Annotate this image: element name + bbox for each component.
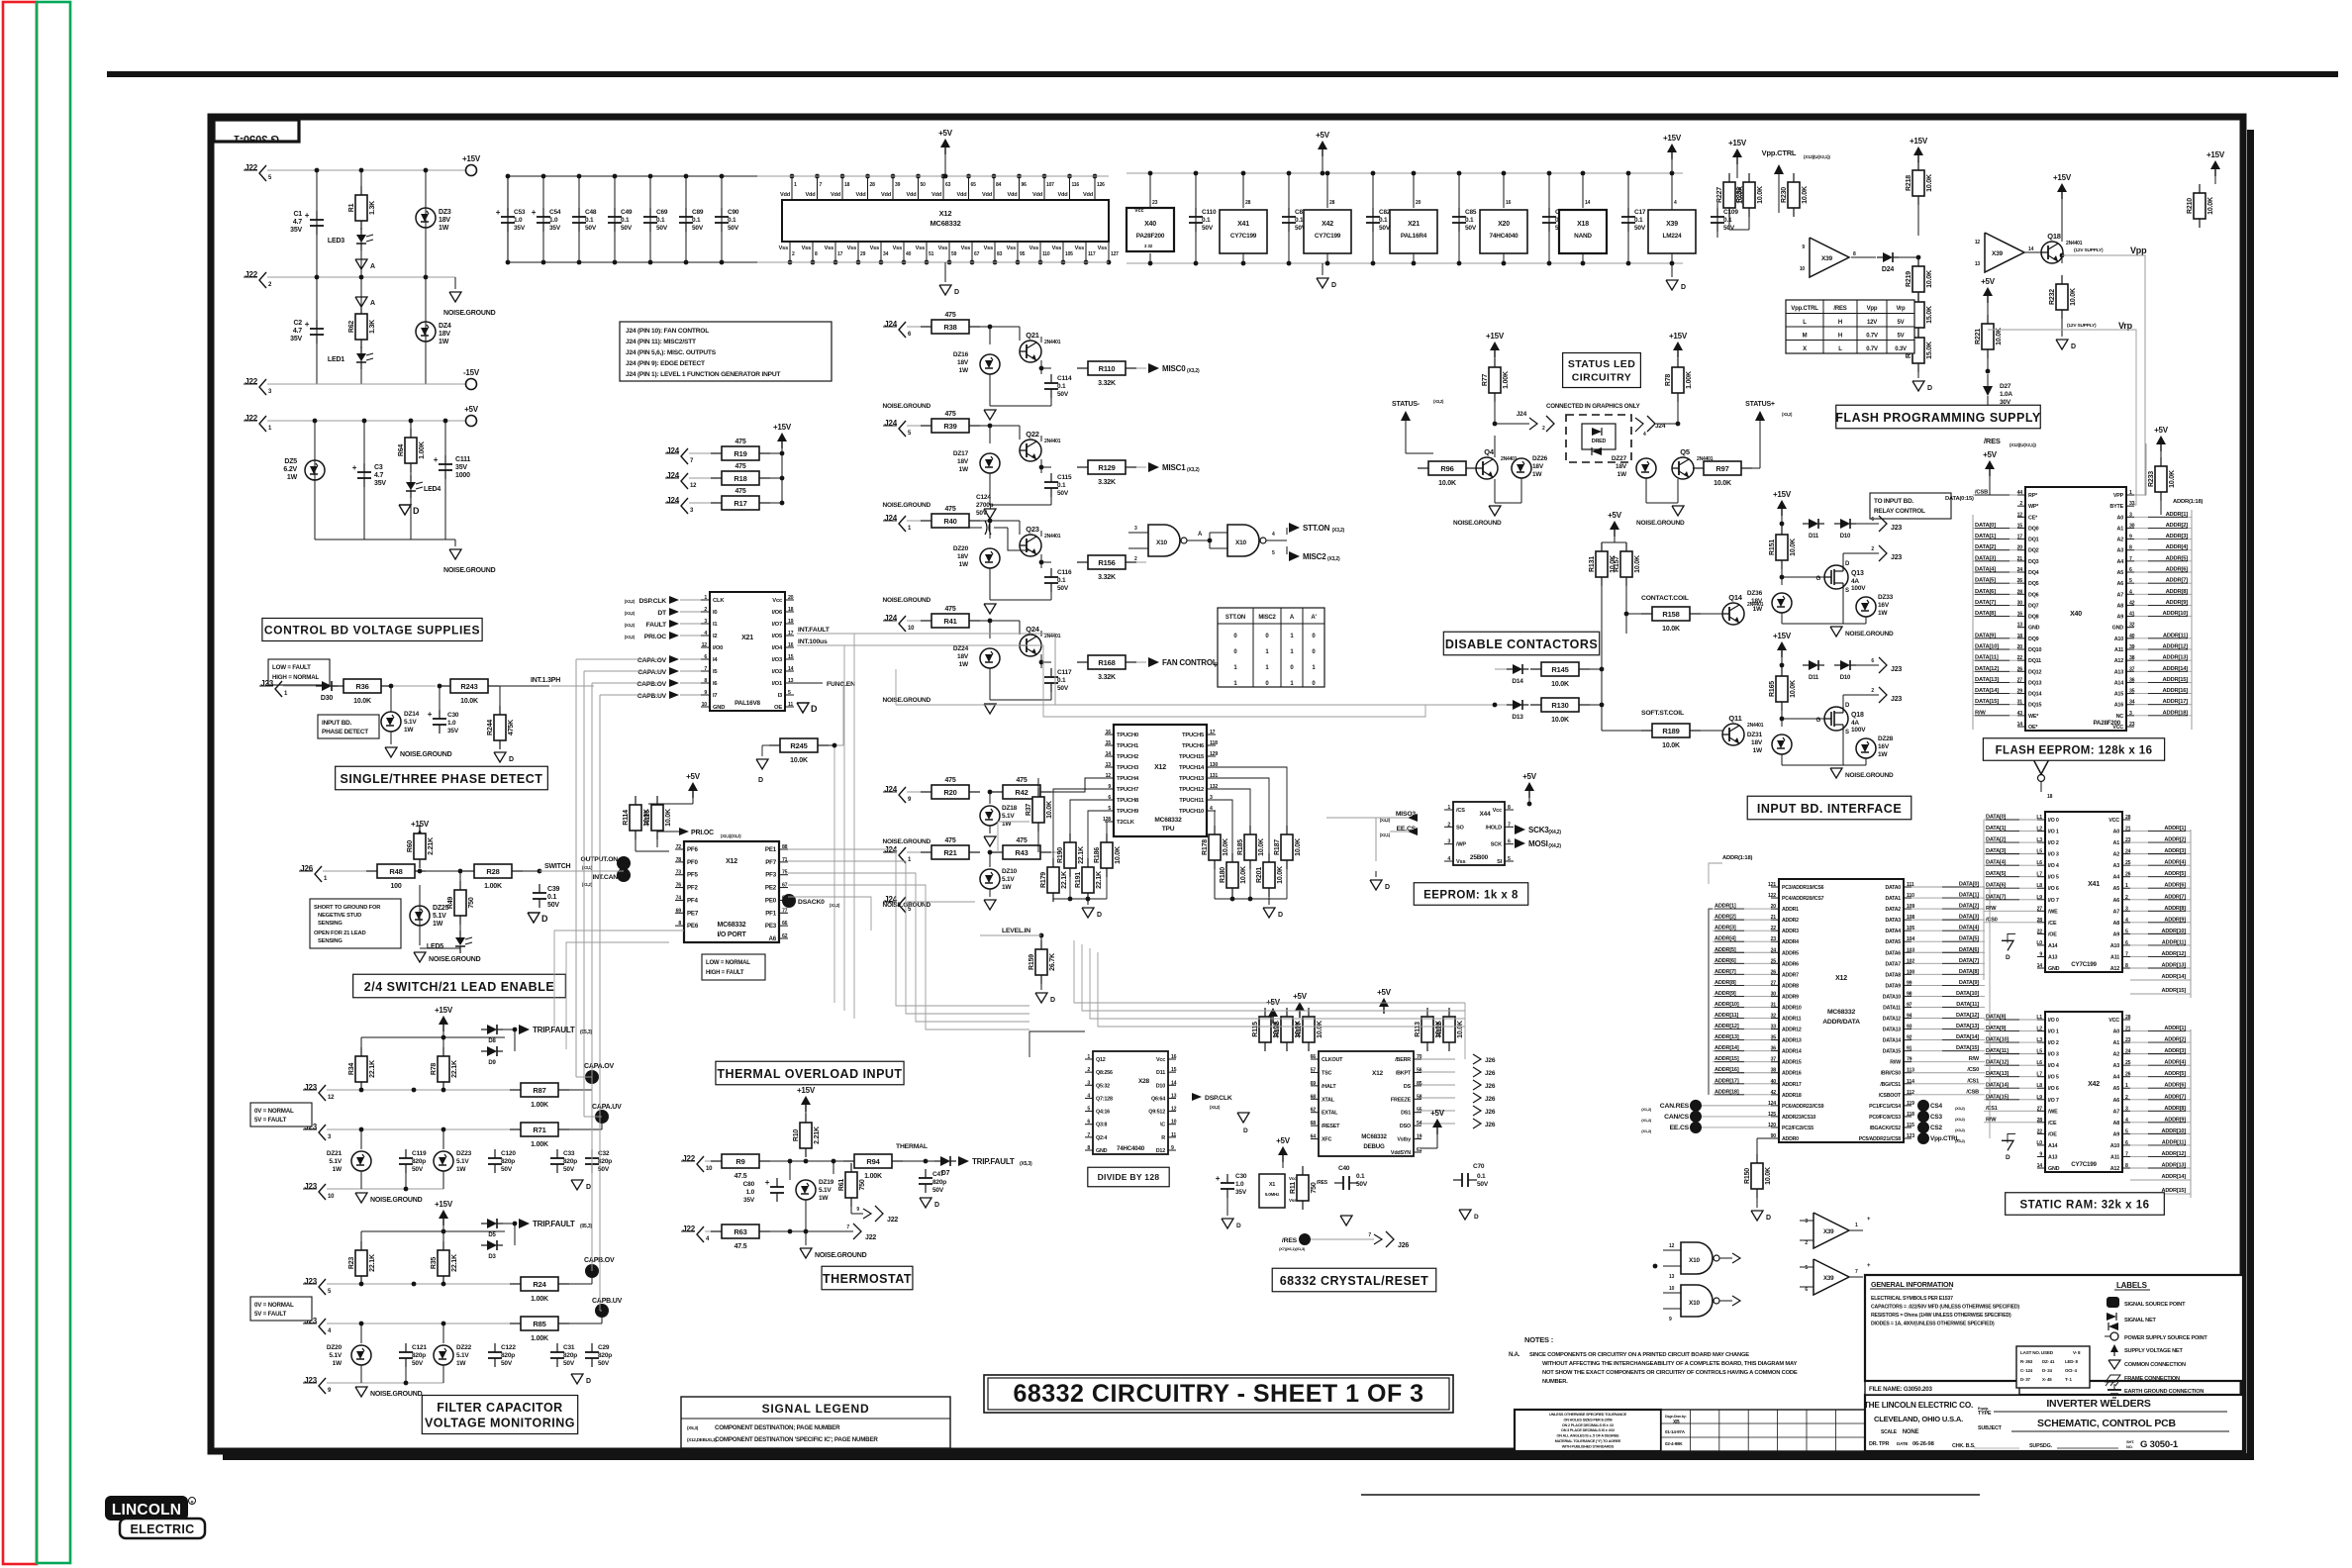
- svg-text:1W: 1W: [404, 727, 414, 734]
- svg-text:A11: A11: [2114, 647, 2123, 653]
- svg-text:R24: R24: [533, 1280, 546, 1289]
- svg-text:1W: 1W: [1532, 471, 1542, 478]
- svg-text:7: 7: [2125, 1151, 2128, 1157]
- svg-text:DATA9: DATA9: [1885, 983, 1901, 989]
- svg-text:X10: X10: [1689, 1257, 1701, 1264]
- svg-text:/BERR: /BERR: [1395, 1057, 1411, 1063]
- svg-text:NOISE.GROUND: NOISE.GROUND: [429, 956, 481, 963]
- svg-text:2: 2: [2019, 501, 2022, 507]
- svg-text:10.0K: 10.0K: [1295, 838, 1302, 856]
- svg-text:Q22: Q22: [1026, 430, 1039, 439]
- svg-text:SINCE COMPONENTS OR CIRCUITRY: SINCE COMPONENTS OR CIRCUITRY ON A PRINT…: [1529, 1352, 1749, 1358]
- svg-text:ADDR23//CS10: ADDR23//CS10: [1782, 1115, 1816, 1121]
- svg-text:+: +: [305, 211, 310, 220]
- svg-text:VddSYN: VddSYN: [1391, 1150, 1411, 1156]
- svg-text:3 32: 3 32: [1144, 244, 1153, 248]
- svg-text:MISC1: MISC1: [1162, 463, 1186, 472]
- svg-text:R60: R60: [407, 840, 414, 853]
- svg-text:1.00K: 1.00K: [1503, 371, 1510, 389]
- svg-text:35V: 35V: [514, 225, 526, 232]
- svg-text:5.1V: 5.1V: [329, 1158, 342, 1165]
- svg-text:R19: R19: [734, 449, 746, 458]
- svg-text:A8: A8: [2117, 603, 2124, 609]
- svg-text:10.0K: 10.0K: [1757, 186, 1764, 204]
- svg-text:RESISTORS = Ohms (1/4W UNLESS: RESISTORS = Ohms (1/4W UNLESS OTHERWISE …: [1871, 1313, 2011, 1319]
- svg-text:FAN CONTROL: FAN CONTROL: [1162, 658, 1218, 667]
- svg-text:X42: X42: [2088, 1081, 2100, 1088]
- svg-text:PA28F200: PA28F200: [1136, 233, 1165, 240]
- svg-text:Vpp: Vpp: [2130, 245, 2147, 255]
- svg-text:TPUCH6: TPUCH6: [1182, 743, 1205, 749]
- svg-text:117: 117: [1088, 251, 1096, 257]
- svg-text:27: 27: [2017, 677, 2023, 683]
- svg-text:I/O 7: I/O 7: [2048, 898, 2059, 904]
- svg-text:50V: 50V: [976, 510, 988, 517]
- svg-text:DIVIDE BY 128: DIVIDE BY 128: [1098, 1172, 1160, 1182]
- svg-text:9: 9: [704, 690, 707, 696]
- svg-text:Vss: Vss: [1075, 245, 1084, 251]
- svg-text:30: 30: [2129, 523, 2135, 529]
- svg-text:65: 65: [971, 182, 977, 188]
- svg-text:475: 475: [1016, 837, 1027, 844]
- svg-text:R244: R244: [487, 720, 494, 735]
- svg-text:8: 8: [1087, 1145, 1090, 1151]
- svg-text:ADDR10: ADDR10: [1782, 1005, 1802, 1011]
- svg-text:I/O 3: I/O 3: [2048, 852, 2059, 858]
- svg-text:R78: R78: [431, 1063, 438, 1076]
- svg-text:35V: 35V: [743, 1197, 755, 1204]
- svg-text:J24 (PIN 11): MISC2/STT: J24 (PIN 11): MISC2/STT: [626, 339, 696, 345]
- svg-text:2: 2: [792, 251, 795, 257]
- svg-text:(X3,2): (X3,2): [625, 635, 636, 639]
- svg-text:L: L: [1838, 346, 1842, 352]
- svg-text:13: 13: [1106, 762, 1112, 768]
- svg-text:I/O 4: I/O 4: [2048, 1063, 2059, 1069]
- svg-text:R/W: R/W: [1986, 1117, 1997, 1123]
- svg-text:C120: C120: [501, 1150, 516, 1157]
- svg-text:R243: R243: [460, 682, 477, 691]
- svg-text:18V: 18V: [957, 553, 969, 560]
- svg-text:I/O4: I/O4: [772, 645, 783, 651]
- svg-text:100V: 100V: [1851, 585, 1866, 592]
- svg-text:42: 42: [1771, 1090, 1777, 1096]
- svg-text:10: 10: [702, 702, 708, 708]
- svg-text:19: 19: [788, 619, 794, 625]
- svg-text:A1: A1: [2113, 840, 2120, 846]
- svg-text:+15V: +15V: [1773, 490, 1792, 499]
- svg-text:T- 1: T- 1: [2065, 1377, 2073, 1382]
- svg-text:C89: C89: [692, 209, 704, 216]
- svg-text:50V: 50V: [1379, 225, 1391, 232]
- svg-text:L2: L2: [2036, 827, 2042, 833]
- svg-text:R180: R180: [1220, 867, 1226, 883]
- svg-text:DRED: DRED: [1592, 439, 1607, 444]
- svg-text:ADDR12: ADDR12: [1782, 1028, 1802, 1033]
- svg-text:J23: J23: [304, 1182, 317, 1191]
- svg-text:X42: X42: [1322, 221, 1333, 228]
- svg-text:8: 8: [2125, 1163, 2128, 1169]
- svg-text:D10: D10: [1840, 534, 1851, 539]
- svg-text:820p: 820p: [563, 1158, 577, 1165]
- svg-text:A1: A1: [2113, 1040, 2120, 1046]
- svg-text:11: 11: [1171, 1132, 1176, 1138]
- svg-text:A': A': [1311, 615, 1317, 621]
- svg-text:/CSB: /CSB: [1966, 1089, 1979, 1095]
- svg-text:DIODES = 1A, 400V(UNLESS OTHE: DIODES = 1A, 400V(UNLESS OTHERWISE SPECI…: [1871, 1322, 1995, 1327]
- svg-text:4.7: 4.7: [374, 472, 383, 479]
- svg-text:H: H: [1838, 334, 1842, 340]
- svg-text:50V: 50V: [1477, 1181, 1489, 1188]
- svg-text:0V = NORMAL: 0V = NORMAL: [254, 1302, 294, 1309]
- svg-text:3.32K: 3.32K: [1098, 380, 1116, 387]
- svg-text:HIGH = NORMAL: HIGH = NORMAL: [272, 674, 319, 681]
- svg-text:A14: A14: [2114, 680, 2123, 686]
- svg-text:X10: X10: [1689, 1300, 1701, 1307]
- svg-text:/BG//CS1: /BG//CS1: [1880, 1082, 1901, 1088]
- svg-text:34: 34: [2129, 700, 2135, 706]
- svg-text:SIGNAL LEGEND: SIGNAL LEGEND: [762, 1402, 870, 1416]
- svg-text:X- 45: X- 45: [2042, 1377, 2052, 1382]
- svg-text:25: 25: [1771, 958, 1777, 964]
- svg-text:126: 126: [1097, 182, 1105, 188]
- svg-text:DATA13: DATA13: [1883, 1028, 1902, 1033]
- svg-text:CY7C199: CY7C199: [1315, 233, 1341, 240]
- svg-text:R210: R210: [2187, 198, 2194, 214]
- svg-text:DQ6: DQ6: [2028, 592, 2039, 598]
- svg-text:5: 5: [2125, 1128, 2128, 1134]
- svg-text:(X1,2): (X1,2): [582, 882, 593, 887]
- svg-text:38: 38: [2129, 655, 2135, 661]
- svg-text:R9: R9: [735, 1157, 744, 1166]
- svg-text:DEBUG: DEBUG: [1363, 1143, 1385, 1150]
- svg-text:PF1: PF1: [765, 910, 777, 917]
- svg-text:59: 59: [951, 251, 957, 257]
- svg-text:76: 76: [676, 883, 682, 889]
- svg-text:(X3,2): (X3,2): [1782, 412, 1793, 417]
- svg-text:22: 22: [1771, 926, 1777, 931]
- svg-text:TRIP.FAULT: TRIP.FAULT: [533, 1220, 575, 1228]
- svg-text:GND: GND: [2048, 1166, 2060, 1172]
- svg-text:L3: L3: [2036, 837, 2042, 843]
- svg-text:R185: R185: [1237, 839, 1244, 855]
- svg-text:DATA6: DATA6: [1885, 950, 1901, 956]
- svg-text:A3: A3: [2113, 863, 2120, 869]
- svg-text:21: 21: [2125, 827, 2131, 833]
- svg-text:R230: R230: [1781, 187, 1788, 203]
- svg-text:/WE: /WE: [2048, 1109, 2058, 1115]
- svg-text:J23: J23: [304, 1376, 317, 1385]
- svg-text:MC68332: MC68332: [930, 219, 960, 228]
- svg-text:L5: L5: [2036, 849, 2042, 855]
- svg-text:1.0A: 1.0A: [2000, 391, 2012, 398]
- svg-text:16: 16: [788, 642, 794, 648]
- svg-text:ON 2 PLACE DECIMALS IS ± .02: ON 2 PLACE DECIMALS IS ± .02: [1562, 1423, 1614, 1427]
- svg-text:14: 14: [2028, 246, 2034, 252]
- svg-text:23: 23: [1771, 936, 1777, 942]
- svg-text:R94: R94: [866, 1157, 880, 1166]
- svg-text:C80: C80: [743, 1181, 755, 1188]
- svg-text:1.00K: 1.00K: [484, 883, 502, 890]
- svg-text:WE*: WE*: [2028, 714, 2039, 720]
- svg-text:X39: X39: [1823, 1228, 1834, 1235]
- svg-text:CAPA.UV: CAPA.UV: [592, 1104, 622, 1111]
- svg-text:9: 9: [2039, 951, 2042, 957]
- svg-text:DSP.CLK: DSP.CLK: [638, 598, 666, 605]
- svg-text:50V: 50V: [547, 902, 559, 909]
- svg-text:H: H: [1838, 320, 1842, 326]
- svg-text:10: 10: [1800, 266, 1806, 272]
- svg-text:+5V: +5V: [1983, 450, 1998, 459]
- svg-text:A7: A7: [2113, 1109, 2120, 1115]
- svg-text:PAL16R4: PAL16R4: [1401, 233, 1427, 240]
- svg-text:CLEVELAND, OHIO U.S.A.: CLEVELAND, OHIO U.S.A.: [1874, 1415, 1963, 1423]
- svg-text:10.0K: 10.0K: [1240, 866, 1247, 884]
- svg-text:DZ19: DZ19: [819, 1179, 834, 1186]
- svg-text:Vss: Vss: [779, 245, 788, 251]
- svg-text:C82: C82: [1379, 209, 1391, 216]
- svg-text:CAN.RES: CAN.RES: [1660, 1103, 1690, 1110]
- svg-text:J23: J23: [1891, 696, 1902, 703]
- svg-text:ADDR8: ADDR8: [1782, 983, 1799, 989]
- svg-text:/HOLD: /HOLD: [1486, 825, 1503, 831]
- svg-text:X1: X1: [1269, 1182, 1275, 1188]
- svg-text:66: 66: [782, 921, 788, 927]
- svg-text:DQ13: DQ13: [2028, 680, 2041, 686]
- svg-text:8: 8: [2125, 963, 2128, 969]
- svg-text:475: 475: [944, 411, 955, 418]
- svg-text:NO.: NO.: [2126, 1444, 2133, 1449]
- svg-text:C115: C115: [1057, 474, 1072, 481]
- svg-text:74HC4040: 74HC4040: [1490, 233, 1519, 240]
- svg-text:DATA7: DATA7: [1885, 961, 1901, 967]
- svg-text:HIGH = FAULT: HIGH = FAULT: [706, 970, 744, 976]
- svg-text:J24: J24: [1517, 411, 1527, 418]
- svg-text:20: 20: [1416, 200, 1421, 206]
- svg-text:(X3,1): (X3,1): [582, 865, 593, 870]
- svg-text:D: D: [586, 1378, 591, 1385]
- svg-text:3: 3: [2125, 906, 2128, 912]
- svg-text:A: A: [370, 300, 375, 307]
- svg-text:12: 12: [1669, 1243, 1675, 1249]
- svg-text:10.0K: 10.0K: [1790, 539, 1797, 556]
- svg-text:NOTES :: NOTES :: [1524, 1335, 1553, 1344]
- svg-text:NAND: NAND: [1574, 233, 1592, 240]
- svg-text:DSO: DSO: [1400, 1124, 1411, 1129]
- svg-text:THERMOSTAT: THERMOSTAT: [823, 1272, 912, 1286]
- svg-text:110: 110: [1042, 251, 1050, 257]
- svg-text:X40: X40: [2070, 611, 2082, 618]
- svg-text:STATUS+: STATUS+: [1745, 401, 1775, 408]
- svg-text:Q9:512: Q9:512: [1148, 1110, 1165, 1116]
- svg-text:ELECTRICAL SYMBOLS PER E1537: ELECTRICAL SYMBOLS PER E1537: [1871, 1296, 1953, 1302]
- svg-text:17: 17: [1210, 730, 1216, 735]
- svg-text:0.1: 0.1: [547, 894, 556, 901]
- svg-text:50V: 50V: [1634, 225, 1646, 232]
- svg-text:Q4:16: Q4:16: [1096, 1110, 1110, 1116]
- svg-text:R96: R96: [1440, 464, 1453, 473]
- svg-text:LABELS: LABELS: [2116, 1281, 2148, 1290]
- svg-text:PC1/FC1//CS4: PC1/FC1//CS4: [1869, 1104, 1901, 1110]
- svg-text:(X3,2): (X3,2): [1433, 399, 1444, 404]
- svg-text:A11: A11: [2110, 1154, 2119, 1160]
- svg-text:475: 475: [944, 312, 955, 319]
- svg-text:R110: R110: [1099, 364, 1116, 373]
- svg-text:6: 6: [1087, 1120, 1090, 1126]
- svg-text:C17: C17: [1634, 209, 1646, 216]
- svg-text:INT.1.3PH: INT.1.3PH: [531, 677, 560, 684]
- svg-text:SUBJECT: SUBJECT: [1978, 1425, 2003, 1431]
- svg-text:(X3,2): (X3,2): [1210, 1105, 1221, 1110]
- svg-text:12: 12: [328, 1095, 335, 1101]
- svg-text:0.1: 0.1: [585, 217, 594, 224]
- svg-text:R: R: [191, 1500, 194, 1505]
- svg-text:1.0: 1.0: [549, 217, 558, 224]
- svg-text:2N4401: 2N4401: [1044, 340, 1061, 345]
- svg-text:58: 58: [1417, 1094, 1422, 1100]
- svg-text:475: 475: [735, 439, 745, 445]
- svg-text:R116: R116: [644, 810, 651, 826]
- svg-text:L6: L6: [2036, 1060, 2042, 1066]
- svg-text:C1: C1: [293, 211, 302, 218]
- svg-text:73: 73: [676, 870, 682, 876]
- svg-text:D- 24: D- 24: [2042, 1368, 2052, 1373]
- svg-text:TPUCH15: TPUCH15: [1179, 754, 1205, 760]
- svg-text:MOSI: MOSI: [1528, 839, 1548, 848]
- svg-text:X12: X12: [1154, 764, 1166, 771]
- svg-text:0.1: 0.1: [1634, 217, 1643, 224]
- svg-text:1.0: 1.0: [447, 720, 456, 727]
- svg-text:7: 7: [704, 666, 707, 672]
- svg-text:5: 5: [1508, 856, 1511, 862]
- svg-text:J22: J22: [865, 1234, 876, 1241]
- svg-text:14: 14: [1106, 751, 1112, 757]
- svg-text:50V: 50V: [563, 1166, 575, 1173]
- svg-text:D11: D11: [1156, 1070, 1165, 1076]
- svg-text:TPUCH2: TPUCH2: [1117, 754, 1138, 760]
- svg-text:/RES: /RES: [1282, 1237, 1298, 1244]
- svg-text:R227: R227: [1716, 187, 1723, 203]
- svg-text:14: 14: [1171, 1080, 1177, 1086]
- svg-text:PC3/ADDR19//CS6: PC3/ADDR19//CS6: [1782, 885, 1824, 891]
- svg-text:X12: X12: [726, 858, 737, 865]
- svg-text:91: 91: [1907, 1046, 1912, 1052]
- svg-text:/OE: /OE: [2048, 1131, 2057, 1137]
- svg-text:-15V: -15V: [463, 368, 480, 377]
- svg-text:9: 9: [2039, 1151, 2042, 1157]
- svg-text:J22: J22: [682, 1225, 695, 1233]
- svg-text:X40: X40: [1144, 221, 1156, 228]
- svg-text:INPUT BD.: INPUT BD.: [322, 720, 352, 727]
- svg-text:X20: X20: [1498, 221, 1510, 228]
- svg-text:A0: A0: [2117, 515, 2124, 521]
- svg-text:R38: R38: [943, 323, 956, 332]
- svg-text:67: 67: [974, 251, 980, 257]
- svg-text:R159: R159: [1029, 954, 1035, 970]
- svg-text:SO: SO: [1456, 825, 1465, 831]
- svg-text:Vdd: Vdd: [1008, 192, 1019, 198]
- svg-text:FLASH EEPROM: 128k x 16: FLASH EEPROM: 128k x 16: [1996, 744, 2153, 756]
- svg-text:0.1: 0.1: [1379, 217, 1388, 224]
- svg-text:2: 2: [2125, 895, 2128, 901]
- svg-text:Vdd: Vdd: [806, 192, 817, 198]
- svg-text:15: 15: [788, 654, 794, 660]
- svg-text:L8: L8: [2036, 1083, 2042, 1089]
- svg-text:33: 33: [2129, 501, 2135, 507]
- svg-text:ADDR4: ADDR4: [1782, 939, 1799, 945]
- svg-text:I/O 6: I/O 6: [2048, 1086, 2059, 1092]
- svg-text:X41: X41: [1237, 221, 1249, 228]
- svg-text:10.0K: 10.0K: [2169, 470, 2176, 488]
- svg-text:/RES: /RES: [1317, 1180, 1328, 1186]
- svg-text:Vdd: Vdd: [931, 192, 942, 198]
- svg-text:74: 74: [676, 895, 682, 901]
- svg-text:C48: C48: [585, 209, 597, 216]
- svg-text:25: 25: [2125, 1060, 2131, 1066]
- svg-text:18: 18: [844, 182, 850, 188]
- svg-text:/CSBOOT: /CSBOOT: [1879, 1093, 1902, 1099]
- svg-text:A12: A12: [2114, 658, 2123, 664]
- svg-text:34: 34: [883, 251, 889, 257]
- svg-text:DQ12: DQ12: [2028, 669, 2041, 675]
- svg-text:75: 75: [782, 870, 788, 876]
- svg-text:TPUCH10: TPUCH10: [1179, 809, 1204, 815]
- svg-text:129: 129: [1210, 751, 1218, 757]
- svg-text:2N4401: 2N4401: [2066, 241, 2083, 246]
- svg-text:VPP: VPP: [2113, 493, 2124, 499]
- svg-text:820p: 820p: [501, 1158, 515, 1165]
- svg-text:PF3: PF3: [765, 872, 777, 879]
- svg-text:DQ8: DQ8: [2028, 615, 2039, 621]
- svg-text:68332 CIRCUITRY - SHEET 1 OF 3: 68332 CIRCUITRY - SHEET 1 OF 3: [1013, 1380, 1423, 1408]
- svg-text:(X3,2): (X3,2): [1187, 467, 1200, 473]
- svg-text:1W: 1W: [333, 1166, 343, 1173]
- svg-text:C33: C33: [563, 1150, 575, 1157]
- svg-text:DS1: DS1: [1401, 1111, 1411, 1117]
- svg-text:C122: C122: [501, 1344, 516, 1351]
- svg-text:PC0/FC0//CS3: PC0/FC0//CS3: [1869, 1115, 1901, 1121]
- svg-text:A0: A0: [2113, 1029, 2120, 1035]
- svg-text:/BR//CS0: /BR//CS0: [1881, 1071, 1902, 1077]
- svg-text:/CS0: /CS0: [1986, 917, 1998, 923]
- svg-text:A10: A10: [2110, 1143, 2119, 1149]
- svg-text:C49: C49: [621, 209, 633, 216]
- svg-text:WP*: WP*: [2028, 504, 2039, 510]
- svg-text:+5V: +5V: [1522, 772, 1537, 781]
- svg-text:R233: R233: [2148, 471, 2155, 487]
- svg-text:R40: R40: [943, 517, 956, 526]
- svg-text:XB: XB: [1673, 1420, 1680, 1425]
- svg-text:TPUCH4: TPUCH4: [1117, 776, 1139, 782]
- svg-text:R: R: [1161, 1135, 1165, 1141]
- svg-text:(05,3): (05,3): [580, 1224, 592, 1229]
- svg-text:6: 6: [1805, 1287, 1808, 1293]
- svg-text:10.0K: 10.0K: [1223, 838, 1229, 856]
- svg-text:1W: 1W: [287, 474, 298, 481]
- svg-text:NONE: NONE: [1903, 1429, 1919, 1435]
- svg-text:20: 20: [1771, 904, 1777, 910]
- svg-text:A4: A4: [2117, 559, 2124, 565]
- svg-text:98: 98: [1907, 991, 1912, 997]
- svg-text:1.00K: 1.00K: [864, 1173, 882, 1180]
- svg-text:Vdd: Vdd: [881, 192, 892, 198]
- svg-text:DZ18: DZ18: [1002, 805, 1018, 812]
- svg-text:51: 51: [929, 251, 934, 257]
- svg-text:77: 77: [782, 908, 788, 914]
- svg-text:5.1V: 5.1V: [433, 913, 446, 920]
- svg-text:R117: R117: [1296, 1022, 1303, 1037]
- svg-text:1W: 1W: [1002, 884, 1012, 891]
- svg-text:J22: J22: [245, 414, 257, 423]
